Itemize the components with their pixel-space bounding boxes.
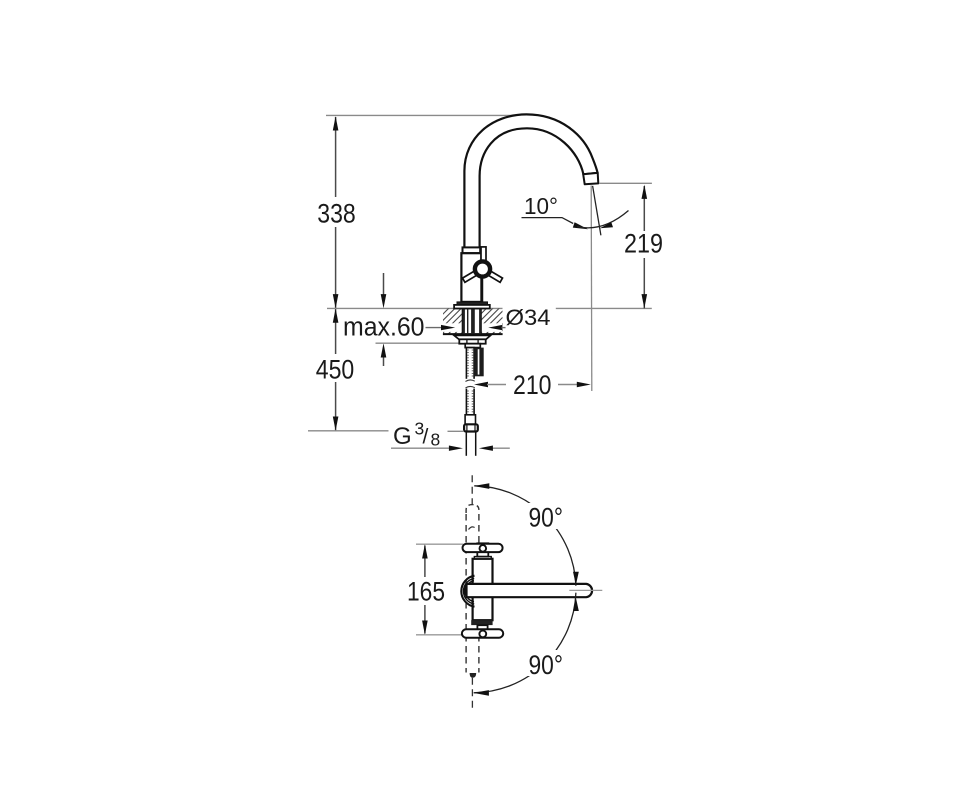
dim 165 arrow bottom	[422, 621, 428, 635]
Ø34 dimension leader right	[488, 325, 502, 330]
svg-text:90°: 90°	[529, 650, 564, 680]
pipe diameter dim lines	[391, 447, 450, 449]
svg-text:165: 165	[407, 577, 445, 607]
countertop bottom edge	[443, 333, 503, 335]
collar dark crescent at tube entry	[463, 584, 467, 598]
white mask for 90 bottom text	[525, 650, 567, 676]
dim 219 arrow bottom	[642, 294, 648, 308]
top view body	[473, 559, 493, 620]
body bottom dark cap	[471, 620, 492, 625]
riser collar joint	[463, 247, 481, 253]
bottom handle bar	[462, 629, 503, 637]
flexible hose (front)	[466, 348, 474, 425]
countertop line left	[327, 307, 503, 309]
top reference line (spout height)	[326, 114, 524, 116]
body top cap	[474, 557, 491, 559]
dimension 210	[474, 382, 488, 387]
dimension 338 line	[335, 117, 337, 308]
G3/8 leader line	[448, 430, 465, 432]
faucet shank through counter	[463, 309, 482, 334]
break marks	[466, 380, 475, 382]
svg-text:210: 210	[513, 370, 552, 400]
base flange lower plate	[454, 305, 490, 309]
swing arc top 90	[474, 486, 576, 586]
white mask for 90 top text	[525, 503, 567, 529]
dashed spout envelope left line	[465, 514, 467, 673]
dashed spout envelope right line	[478, 514, 480, 673]
envelope bottom cap	[470, 673, 477, 678]
max.60 lower reference line	[376, 342, 460, 344]
stem under handle	[482, 278, 484, 302]
svg-text:G: G	[393, 423, 412, 450]
dim 165 arrow top	[422, 544, 428, 558]
Ø34 dimension leader left (also max.60 leader)	[426, 327, 443, 329]
water stream 10deg line	[593, 186, 601, 236]
handle lower-left spoke	[463, 271, 477, 282]
bottom handle knob	[477, 625, 487, 637]
flexible hose (rear, dark)	[474, 348, 484, 377]
dim 338 arrow bottom	[333, 294, 339, 308]
top handle knob	[477, 543, 488, 556]
165 top tick	[416, 543, 463, 545]
svg-text:max.60: max.60	[343, 314, 425, 342]
pipe dim arrow right	[479, 446, 493, 451]
washer under counter	[454, 335, 491, 339]
hose ferrule	[465, 415, 475, 425]
svg-text:Ø34: Ø34	[506, 305, 551, 330]
svg-text:10°: 10°	[524, 193, 558, 219]
shank stub below nut	[465, 344, 480, 348]
svg-text:8: 8	[431, 430, 441, 450]
spout aerator band	[583, 173, 598, 184]
10deg leader arrowhead	[573, 222, 588, 229]
svg-text:219: 219	[624, 229, 663, 259]
base flange dark plate	[457, 302, 488, 305]
165 bottom tick	[416, 634, 462, 636]
svg-text:/: /	[423, 426, 429, 449]
max.60 upper arrow (down)	[383, 273, 385, 295]
219 top reference line	[600, 182, 652, 184]
envelope break mark	[469, 527, 475, 530]
pipe dim arrow left	[449, 446, 463, 451]
dim 338 arrow top	[333, 116, 339, 130]
mounting nut	[459, 339, 485, 343]
handle hub ring	[475, 261, 490, 276]
dim 219 arrow top	[642, 185, 648, 199]
supply tail pipe	[465, 432, 467, 456]
handle lower-right spoke	[488, 271, 502, 282]
center dashed line upper	[471, 475, 473, 505]
faucet body	[461, 253, 481, 302]
white halo for diameter dimension through hatch	[444, 323, 463, 332]
dimension 219 line	[643, 186, 645, 308]
center dashed line lower	[471, 678, 473, 710]
hose break gap	[465, 379, 476, 389]
spout axis line	[569, 589, 602, 591]
450 bottom tick line	[308, 430, 389, 432]
svg-text:338: 338	[317, 199, 356, 229]
svg-text:450: 450	[316, 355, 355, 385]
dimension 165 line	[424, 546, 426, 634]
handle up spoke	[481, 247, 486, 262]
dim 450 arrow top	[333, 308, 339, 322]
dashed spout envelope top cap	[466, 505, 479, 513]
10deg arc arrowhead	[600, 222, 613, 228]
water stream vertical line	[590, 186, 593, 392]
10deg leader underline	[522, 218, 574, 224]
dim 450 arrow bottom	[333, 417, 339, 431]
top handle circle	[480, 545, 487, 552]
bottom handle circle	[479, 631, 486, 638]
svg-text:90°: 90°	[529, 503, 564, 533]
10deg angle arc	[577, 211, 629, 228]
G3/8 hex nut	[464, 424, 478, 431]
swing arc bottom 90	[474, 593, 576, 693]
swivel collar arcs	[461, 576, 474, 607]
top handle bar	[463, 544, 503, 552]
max.60 lower arrow (up)	[383, 357, 385, 367]
arrows of swing arcs	[474, 483, 490, 489]
spout tube (gooseneck)	[464, 114, 597, 250]
dimension 450 line	[335, 308, 337, 430]
countertop line right	[556, 307, 652, 309]
top view spout tube	[467, 584, 593, 597]
